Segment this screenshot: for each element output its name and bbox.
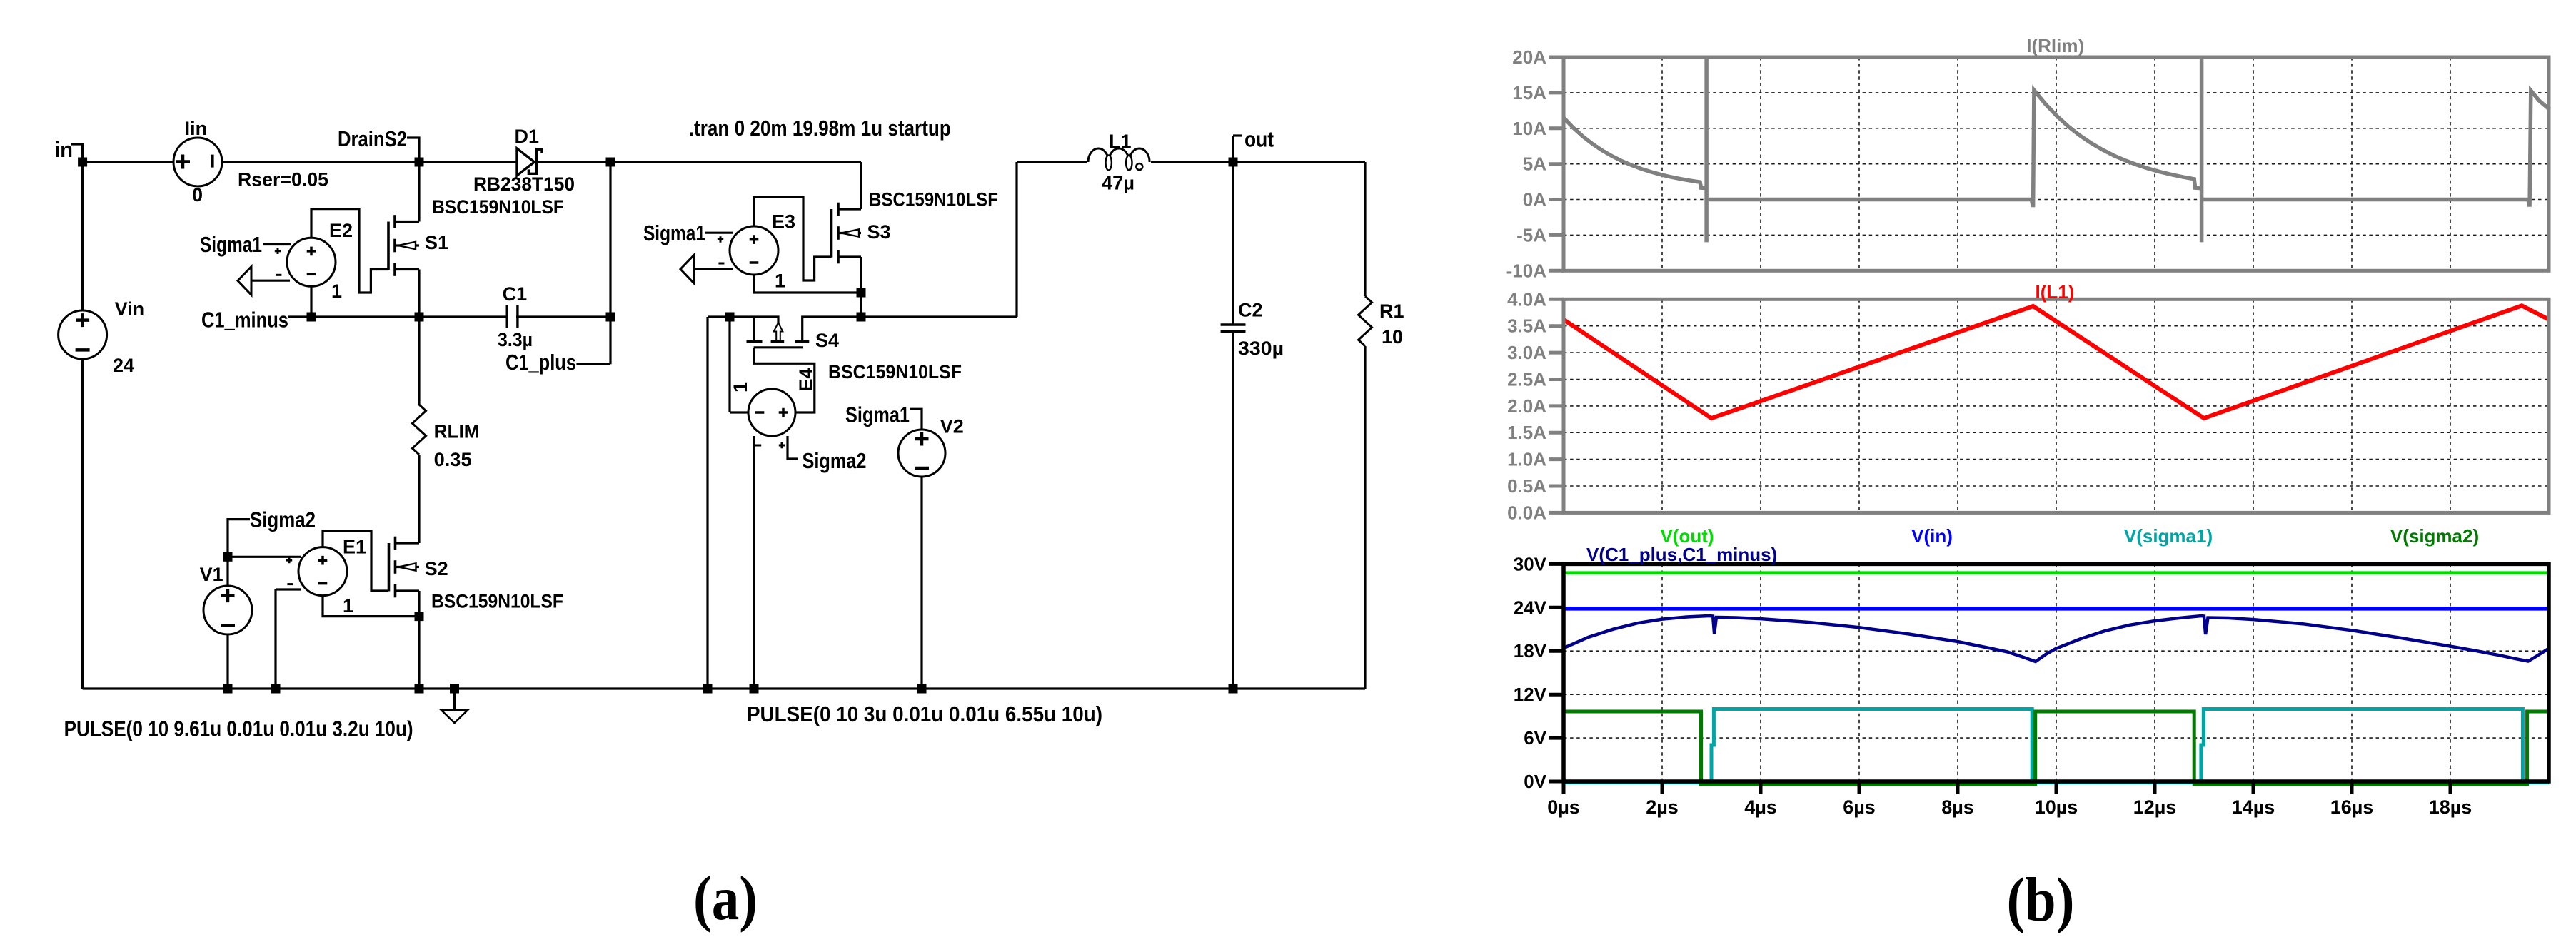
svg-text:0V: 0V <box>1524 771 1546 792</box>
svg-text:Sigma1: Sigma1 <box>643 221 705 245</box>
svg-text:Iin: Iin <box>185 118 208 139</box>
svg-text:S1: S1 <box>425 232 448 253</box>
svg-text:2µs: 2µs <box>1646 796 1679 818</box>
svg-text:47µ: 47µ <box>1102 173 1134 194</box>
svg-text:3.5A: 3.5A <box>1507 315 1546 337</box>
svg-text:PULSE(0 10 9.61u 0.01u 0.01u 3: PULSE(0 10 9.61u 0.01u 0.01u 3.2u 10u) <box>64 716 413 741</box>
svg-text:E2: E2 <box>329 220 353 241</box>
svg-text:5A: 5A <box>1523 153 1546 175</box>
svg-text:R1: R1 <box>1379 300 1404 322</box>
svg-text:V(sigma1): V(sigma1) <box>2124 525 2213 547</box>
svg-text:3.0A: 3.0A <box>1507 342 1546 363</box>
svg-text:in: in <box>54 137 73 162</box>
svg-text:0.35: 0.35 <box>434 449 472 470</box>
svg-text:18µs: 18µs <box>2429 796 2472 818</box>
svg-text:18V: 18V <box>1514 640 1547 662</box>
svg-text:BSC159N10LSF: BSC159N10LSF <box>431 591 563 612</box>
svg-text:4.0A: 4.0A <box>1507 288 1546 310</box>
svg-text:V(C1_plus,C1_minus): V(C1_plus,C1_minus) <box>1586 544 1777 565</box>
svg-text:D1: D1 <box>515 126 540 147</box>
svg-text:12V: 12V <box>1514 684 1547 705</box>
svg-text:PULSE(0 10 3u 0.01u 0.01u 6.55: PULSE(0 10 3u 0.01u 0.01u 6.55u 10u) <box>747 702 1102 726</box>
svg-text:12µs: 12µs <box>2133 796 2177 818</box>
svg-text:1: 1 <box>775 270 785 292</box>
svg-text:0.5A: 0.5A <box>1507 475 1546 497</box>
svg-text:1.0A: 1.0A <box>1507 449 1546 470</box>
svg-text:.tran 0 20m 19.98m 1u startup: .tran 0 20m 19.98m 1u startup <box>689 116 951 141</box>
svg-text:24: 24 <box>113 355 134 376</box>
svg-text:V(in): V(in) <box>1911 525 1953 547</box>
svg-text:30V: 30V <box>1514 553 1547 574</box>
svg-text:L1: L1 <box>1109 131 1132 152</box>
svg-text:0A: 0A <box>1523 189 1546 211</box>
svg-text:Rser=0.05: Rser=0.05 <box>238 169 328 191</box>
svg-text:I(L1): I(L1) <box>2036 281 2075 303</box>
svg-text:24V: 24V <box>1514 597 1547 618</box>
svg-text:1: 1 <box>343 595 353 617</box>
svg-text:C2: C2 <box>1238 300 1263 321</box>
svg-text:2.5A: 2.5A <box>1507 368 1546 390</box>
svg-text:14µs: 14µs <box>2232 796 2275 818</box>
svg-text:6V: 6V <box>1524 727 1546 749</box>
svg-text:(a): (a) <box>693 864 758 933</box>
svg-text:BSC159N10LSF: BSC159N10LSF <box>828 361 962 383</box>
svg-text:S2: S2 <box>425 558 448 579</box>
svg-text:1: 1 <box>730 382 751 393</box>
svg-text:BSC159N10LSF: BSC159N10LSF <box>432 196 564 218</box>
svg-text:Sigma2: Sigma2 <box>250 507 316 532</box>
svg-text:Sigma2: Sigma2 <box>803 448 867 473</box>
svg-text:0µs: 0µs <box>1547 796 1580 818</box>
svg-text:6µs: 6µs <box>1843 796 1876 818</box>
svg-text:330µ: 330µ <box>1238 338 1284 359</box>
svg-text:S4: S4 <box>815 330 839 351</box>
svg-text:3.3µ: 3.3µ <box>498 329 533 350</box>
svg-text:10: 10 <box>1382 326 1403 348</box>
svg-text:4µs: 4µs <box>1744 796 1777 818</box>
svg-text:15A: 15A <box>1512 82 1546 103</box>
svg-text:(b): (b) <box>2007 866 2075 935</box>
svg-text:16µs: 16µs <box>2330 796 2374 818</box>
svg-text:RLIM: RLIM <box>434 421 480 442</box>
svg-text:-5A: -5A <box>1516 224 1546 245</box>
svg-text:E4: E4 <box>795 368 817 391</box>
svg-text:C1: C1 <box>503 283 528 305</box>
svg-text:1.5A: 1.5A <box>1507 422 1546 443</box>
svg-text:out: out <box>1244 127 1274 152</box>
svg-text:BSC159N10LSF: BSC159N10LSF <box>869 189 998 211</box>
svg-text:10µs: 10µs <box>2035 796 2078 818</box>
svg-text:E3: E3 <box>772 211 795 233</box>
svg-text:I(Rlim): I(Rlim) <box>2026 35 2084 56</box>
svg-text:C1_plus: C1_plus <box>505 350 576 375</box>
svg-text:Vin: Vin <box>115 298 145 320</box>
svg-text:V1: V1 <box>200 564 223 585</box>
svg-text:20A: 20A <box>1512 46 1546 68</box>
svg-text:10A: 10A <box>1512 118 1546 139</box>
svg-text:8µs: 8µs <box>1941 796 1974 818</box>
svg-text:0.0A: 0.0A <box>1507 502 1546 523</box>
svg-text:-10A: -10A <box>1506 260 1547 281</box>
svg-text:V(sigma2): V(sigma2) <box>2390 525 2479 547</box>
svg-text:V2: V2 <box>940 416 964 437</box>
svg-text:1: 1 <box>331 280 342 302</box>
svg-text:Sigma1: Sigma1 <box>845 402 910 427</box>
svg-text:E1: E1 <box>343 537 366 558</box>
svg-text:DrainS2: DrainS2 <box>338 126 407 151</box>
svg-text:Sigma1: Sigma1 <box>200 232 262 257</box>
svg-text:RB238T150: RB238T150 <box>473 173 575 195</box>
svg-text:0: 0 <box>192 184 203 206</box>
svg-text:2.0A: 2.0A <box>1507 395 1546 417</box>
svg-text:S3: S3 <box>867 221 891 243</box>
svg-text:C1_minus: C1_minus <box>201 308 288 333</box>
